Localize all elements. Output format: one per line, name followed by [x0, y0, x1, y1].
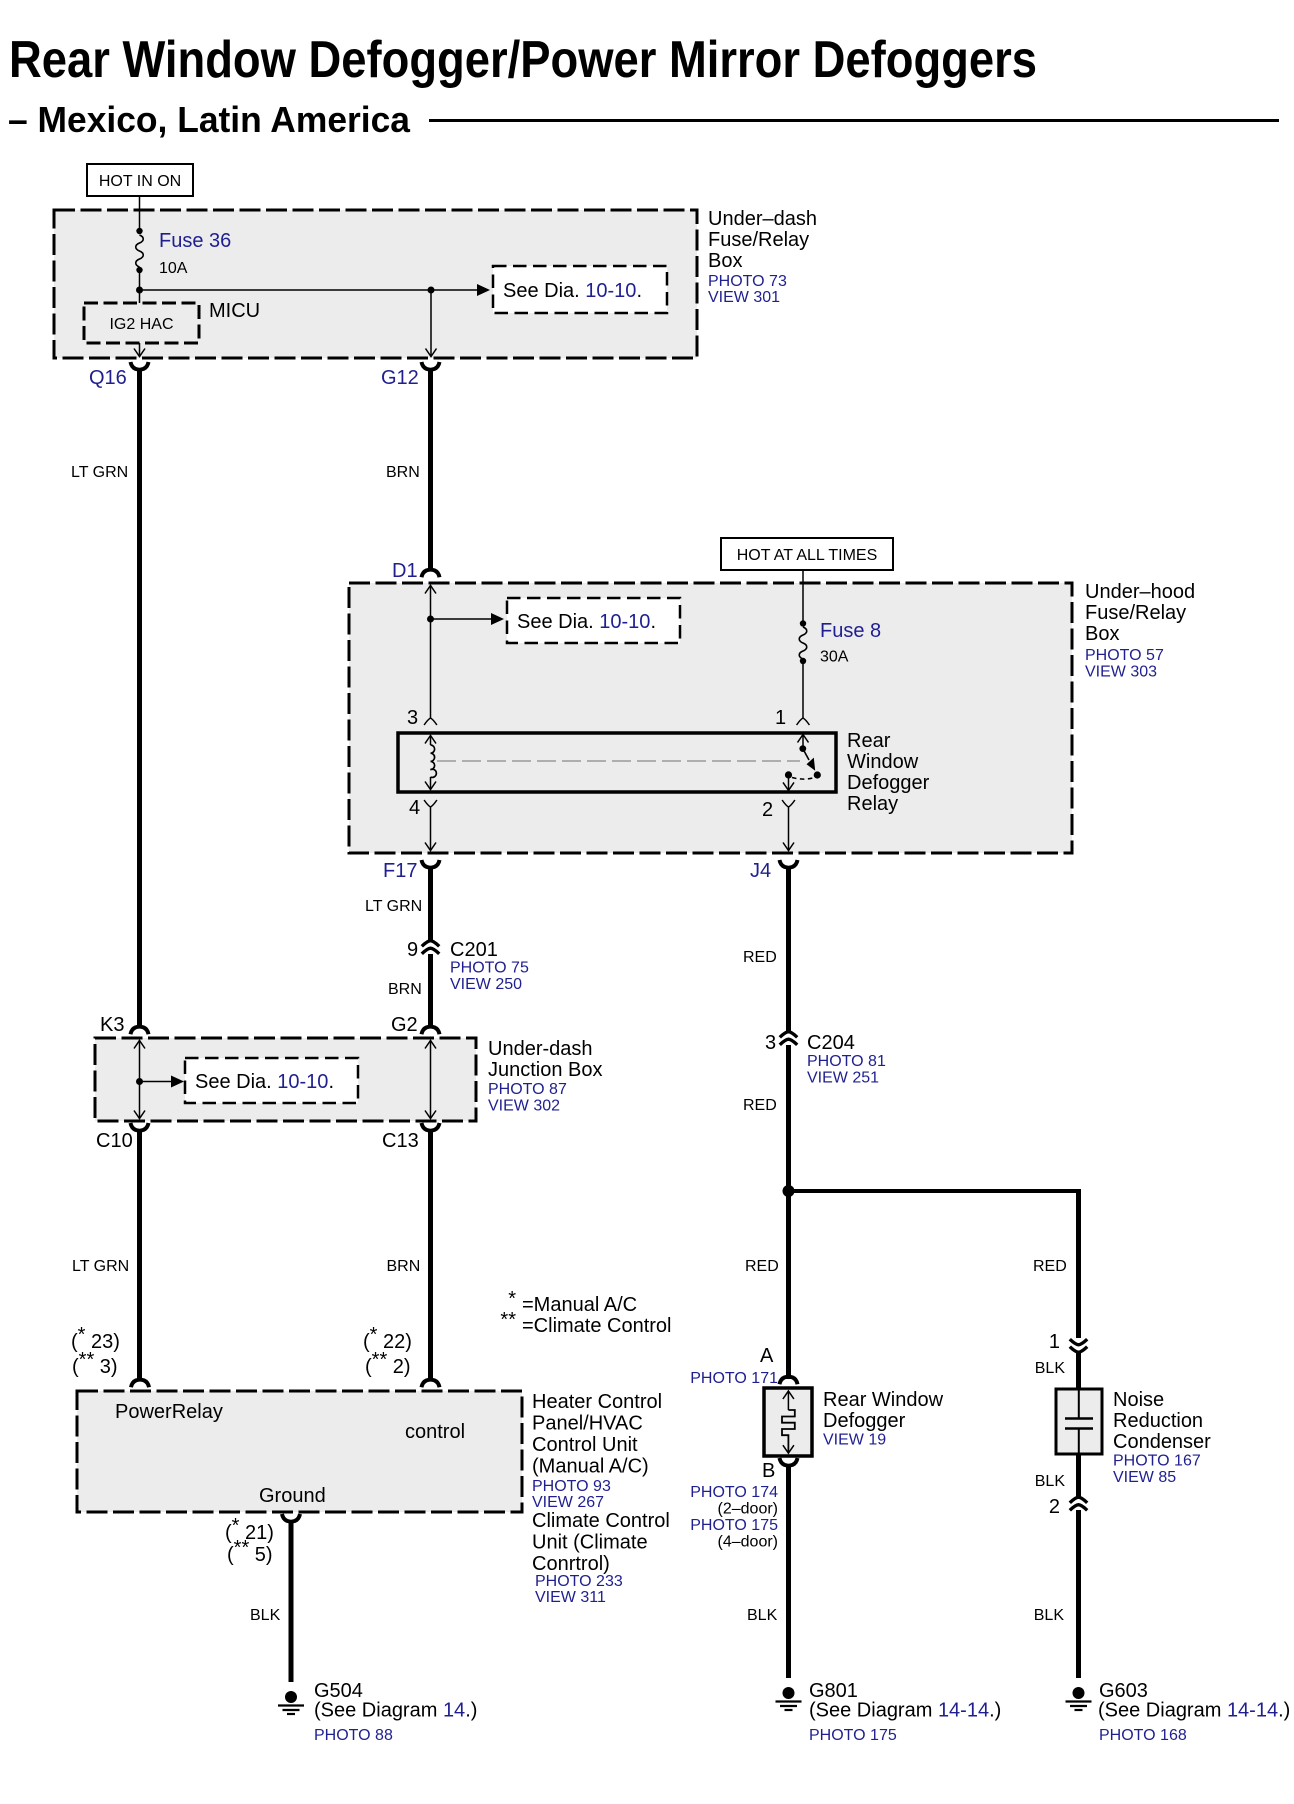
svg-text:Box: Box [708, 250, 742, 272]
svg-text:9: 9 [407, 939, 418, 961]
svg-text:Climate Control: Climate Control [532, 1510, 670, 1532]
svg-text:Under–dash: Under–dash [708, 208, 817, 230]
svg-text:(** 3): (** 3) [72, 1349, 118, 1378]
svg-text:B: B [762, 1460, 775, 1482]
svg-text:PHOTO 167: PHOTO 167 [1113, 1453, 1201, 1470]
svg-text:PHOTO 233: PHOTO 233 [535, 1573, 623, 1590]
svg-text:RED: RED [745, 1258, 779, 1275]
svg-text:Ground: Ground [259, 1485, 326, 1507]
svg-text:(* 21): (* 21) [225, 1515, 274, 1544]
svg-text:C204: C204 [807, 1032, 855, 1054]
svg-text:PHOTO 57: PHOTO 57 [1085, 647, 1164, 664]
svg-text:BRN: BRN [386, 464, 420, 481]
svg-text:G2: G2 [391, 1014, 418, 1036]
svg-text:IG2 HAC: IG2 HAC [109, 316, 173, 333]
svg-text:PowerRelay: PowerRelay [115, 1401, 223, 1423]
svg-text:VIEW 251: VIEW 251 [807, 1070, 879, 1087]
svg-text:Unit (Climate: Unit (Climate [532, 1532, 648, 1554]
svg-text:C10: C10 [96, 1130, 133, 1152]
svg-text:control: control [405, 1421, 465, 1443]
svg-text:Reduction: Reduction [1113, 1410, 1203, 1432]
svg-text:PHOTO 171: PHOTO 171 [690, 1370, 778, 1387]
svg-text:(See Diagram 14.): (See Diagram 14.) [314, 1700, 477, 1722]
svg-text:BLK: BLK [1034, 1607, 1065, 1624]
svg-text:VIEW 85: VIEW 85 [1113, 1469, 1176, 1486]
svg-text:BLK: BLK [250, 1607, 281, 1624]
svg-text:=Manual A/C: =Manual A/C [522, 1294, 637, 1316]
svg-text:PHOTO 81: PHOTO 81 [807, 1053, 886, 1070]
svg-text:PHOTO 88: PHOTO 88 [314, 1727, 393, 1744]
svg-text:PHOTO 93: PHOTO 93 [532, 1478, 611, 1495]
svg-text:10A: 10A [159, 260, 188, 277]
svg-text:Rear: Rear [847, 730, 891, 752]
svg-text:VIEW 302: VIEW 302 [488, 1098, 560, 1115]
svg-text:1: 1 [1049, 1331, 1060, 1353]
svg-text:(2–door): (2–door) [718, 1501, 778, 1518]
svg-text:Rear Window: Rear Window [823, 1389, 944, 1411]
svg-text:(4–door): (4–door) [718, 1534, 778, 1551]
svg-text:Defogger: Defogger [847, 772, 930, 794]
svg-text:PHOTO 87: PHOTO 87 [488, 1081, 567, 1098]
svg-text:Fuse 36: Fuse 36 [159, 230, 231, 252]
svg-text:VIEW 301: VIEW 301 [708, 289, 780, 306]
svg-text:Fuse 8: Fuse 8 [820, 620, 881, 642]
svg-text:Window: Window [847, 751, 919, 773]
svg-text:(** 2): (** 2) [365, 1349, 411, 1378]
svg-text:VIEW 19: VIEW 19 [823, 1432, 886, 1449]
svg-text:=Climate Control: =Climate Control [522, 1315, 672, 1337]
svg-text:RED: RED [743, 949, 777, 966]
svg-text:**: ** [500, 1309, 516, 1331]
svg-text:F17: F17 [383, 860, 417, 882]
svg-text:30A: 30A [820, 649, 849, 666]
svg-text:RED: RED [1033, 1258, 1067, 1275]
svg-text:MICU: MICU [209, 300, 260, 322]
svg-text:2: 2 [1049, 1496, 1060, 1518]
svg-text:VIEW 250: VIEW 250 [450, 976, 522, 993]
svg-text:Junction Box: Junction Box [488, 1059, 603, 1081]
svg-text:Rear Window Defogger/Power Mir: Rear Window Defogger/Power Mirror Defogg… [9, 31, 1037, 89]
svg-text:G12: G12 [381, 367, 419, 389]
svg-text:See Dia. 10-10.: See Dia. 10-10. [517, 611, 656, 633]
svg-text:Noise: Noise [1113, 1389, 1164, 1411]
svg-text:VIEW 303: VIEW 303 [1085, 664, 1157, 681]
svg-text:4: 4 [409, 797, 420, 819]
svg-text:Heater Control: Heater Control [532, 1391, 662, 1413]
svg-text:RED: RED [743, 1097, 777, 1114]
svg-text:LT GRN: LT GRN [72, 1258, 129, 1275]
svg-text:PHOTO 73: PHOTO 73 [708, 273, 787, 290]
svg-text:PHOTO 75: PHOTO 75 [450, 960, 529, 977]
svg-text:Panel/HVAC: Panel/HVAC [532, 1413, 643, 1435]
svg-text:(Manual A/C): (Manual A/C) [532, 1456, 649, 1478]
svg-text:Control Unit: Control Unit [532, 1434, 638, 1456]
svg-text:PHOTO 174: PHOTO 174 [690, 1484, 778, 1501]
svg-text:(* 22): (* 22) [363, 1324, 412, 1353]
svg-text:Relay: Relay [847, 793, 898, 815]
svg-text:2: 2 [762, 799, 773, 821]
svg-text:LT GRN: LT GRN [71, 464, 128, 481]
svg-text:Under–hood: Under–hood [1085, 581, 1195, 603]
svg-text:HOT AT ALL TIMES: HOT AT ALL TIMES [737, 547, 878, 564]
svg-text:BLK: BLK [1035, 1473, 1066, 1490]
svg-text:Defogger: Defogger [823, 1410, 906, 1432]
svg-text:(See Diagram 14-14.): (See Diagram 14-14.) [809, 1700, 1001, 1722]
svg-text:C13: C13 [382, 1130, 419, 1152]
svg-text:VIEW 311: VIEW 311 [535, 1589, 606, 1606]
svg-text:– Mexico, Latin America: – Mexico, Latin America [8, 99, 411, 140]
svg-text:VIEW 267: VIEW 267 [532, 1494, 604, 1511]
svg-text:PHOTO 175: PHOTO 175 [809, 1727, 897, 1744]
svg-text:BLK: BLK [747, 1607, 778, 1624]
svg-text:3: 3 [407, 707, 418, 729]
svg-text:3: 3 [765, 1032, 776, 1054]
svg-text:Conrtrol): Conrtrol) [532, 1553, 610, 1575]
svg-text:*: * [508, 1288, 516, 1310]
svg-text:See Dia. 10-10.: See Dia. 10-10. [195, 1071, 334, 1093]
svg-text:1: 1 [775, 707, 786, 729]
svg-text:PHOTO 175: PHOTO 175 [690, 1517, 778, 1534]
svg-text:Fuse/Relay: Fuse/Relay [1085, 602, 1186, 624]
svg-text:A: A [760, 1345, 774, 1367]
svg-text:D1: D1 [392, 560, 418, 582]
svg-text:See Dia. 10-10.: See Dia. 10-10. [503, 280, 642, 302]
svg-text:Q16: Q16 [89, 367, 127, 389]
svg-text:BRN: BRN [388, 981, 422, 998]
svg-text:J4: J4 [750, 860, 771, 882]
svg-text:K3: K3 [100, 1014, 124, 1036]
svg-text:PHOTO 168: PHOTO 168 [1099, 1727, 1187, 1744]
svg-text:Box: Box [1085, 623, 1119, 645]
svg-text:Fuse/Relay: Fuse/Relay [708, 229, 809, 251]
svg-text:LT GRN: LT GRN [365, 898, 422, 915]
svg-text:(See Diagram 14-14.): (See Diagram 14-14.) [1098, 1700, 1290, 1722]
svg-text:Under-dash: Under-dash [488, 1038, 593, 1060]
svg-text:BRN: BRN [387, 1258, 421, 1275]
svg-text:Condenser: Condenser [1113, 1431, 1211, 1453]
svg-text:HOT IN ON: HOT IN ON [99, 173, 181, 190]
svg-text:C201: C201 [450, 939, 498, 961]
svg-text:BLK: BLK [1035, 1360, 1066, 1377]
